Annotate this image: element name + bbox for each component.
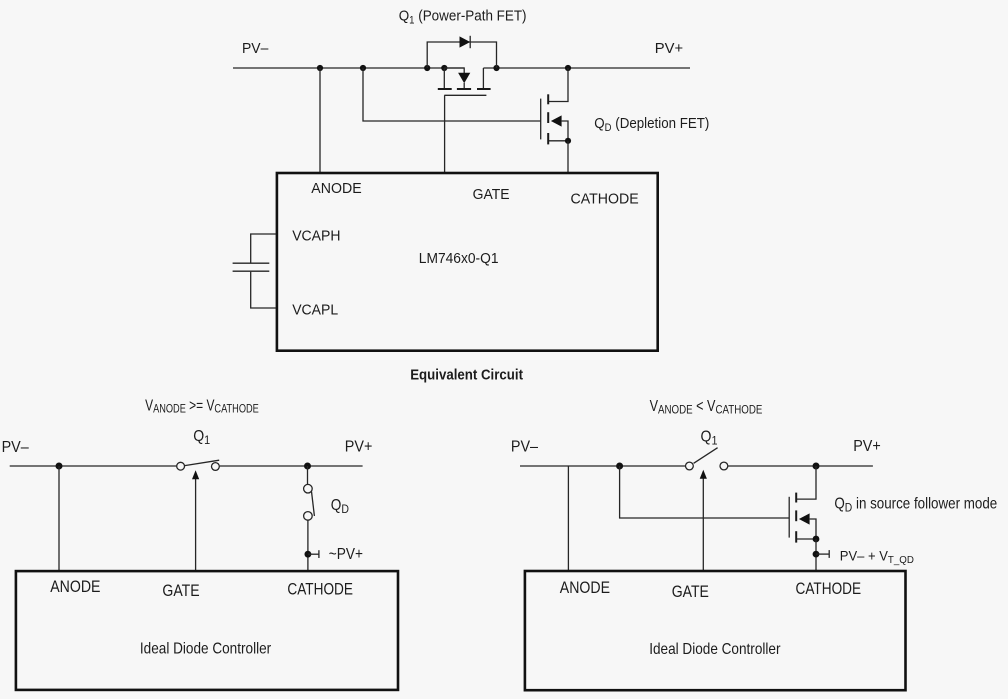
label PV+ bottom right bbox=[853, 439, 881, 455]
wire Q1 gate lead bbox=[444, 95, 446, 173]
pin label GATE bbox=[162, 582, 199, 600]
svg-text:GATE: GATE bbox=[473, 187, 510, 204]
svg-text:~PV+: ~PV+ bbox=[329, 546, 363, 563]
svg-text:GATE: GATE bbox=[162, 582, 199, 600]
IC ideal diode controller box left bbox=[16, 571, 398, 690]
svg-text:LM746x0-Q1: LM746x0-Q1 bbox=[419, 251, 499, 268]
pin label GATE bbox=[473, 187, 510, 204]
svg-text:VCAPH: VCAPH bbox=[292, 228, 340, 245]
node anode tap bbox=[317, 65, 323, 71]
caption Equivalent Circuit bbox=[410, 367, 523, 384]
wire PV rail right segment bbox=[728, 465, 873, 467]
label QD in source follower mode bbox=[834, 496, 997, 515]
diode D1 body diode of Q1 bbox=[460, 36, 471, 48]
wire gate arrow right bbox=[700, 470, 707, 571]
svg-text:PV–: PV– bbox=[511, 439, 539, 455]
label LM746x0-Q1 bbox=[419, 251, 499, 268]
node anode tap bbox=[56, 463, 63, 470]
label QD switch left bbox=[331, 497, 349, 516]
wire stub with tick bbox=[816, 550, 829, 558]
pin label VCAPL bbox=[292, 302, 338, 319]
switch QD closed bbox=[304, 466, 315, 571]
label PV+ top right bbox=[655, 41, 683, 57]
label ~PV+ bbox=[329, 546, 363, 563]
capacitor C1 vcap bbox=[233, 234, 276, 308]
transistor QD depletion FET bbox=[541, 68, 571, 144]
switch Q1 open bbox=[686, 448, 728, 470]
svg-text:Ideal Diode Controller: Ideal Diode Controller bbox=[649, 641, 780, 658]
svg-text:QD (Depletion FET): QD (Depletion FET) bbox=[594, 116, 709, 135]
svg-text:Q1 (Power-Path FET): Q1 (Power-Path FET) bbox=[399, 8, 527, 27]
svg-text:CATHODE: CATHODE bbox=[796, 580, 862, 598]
svg-text:ANODE: ANODE bbox=[311, 180, 362, 196]
pin label CATHODE bbox=[287, 580, 353, 598]
transistor Q1 power-path FET bbox=[438, 68, 491, 95]
node QD gate tap bbox=[360, 65, 366, 71]
svg-text:ANODE: ANODE bbox=[560, 579, 610, 597]
wire PV rail left segment bbox=[520, 465, 686, 467]
svg-text:Equivalent Circuit: Equivalent Circuit bbox=[410, 367, 523, 384]
label QD (Depletion FET) bbox=[594, 116, 709, 135]
svg-text:QD in source follower mode: QD in source follower mode bbox=[834, 496, 997, 515]
pin label ANODE bbox=[560, 579, 610, 597]
wire PV rail right segment bbox=[220, 465, 363, 467]
IC U1 LM746x0-Q1 controller box bbox=[277, 173, 658, 351]
wire anode vertical bbox=[58, 466, 60, 571]
wire cathode vertical bbox=[815, 539, 817, 571]
node QD gate tap bbox=[616, 463, 623, 470]
wire gate arrow left bbox=[192, 470, 199, 571]
node ~PV+ junction bbox=[305, 551, 312, 558]
label Ideal Diode Controller right bbox=[649, 641, 780, 658]
pin label CATHODE bbox=[571, 191, 639, 207]
label PV- bottom right bbox=[511, 439, 539, 455]
node QD drain tap bbox=[813, 463, 820, 470]
transistor QD source follower bbox=[789, 466, 819, 543]
node Q1 drain bbox=[441, 65, 447, 71]
svg-text:Ideal Diode Controller: Ideal Diode Controller bbox=[140, 641, 271, 658]
node cathode tap bbox=[304, 463, 311, 470]
label condition V_ANODE >= V_CATHODE bbox=[145, 397, 259, 416]
pin label ANODE bbox=[50, 578, 100, 596]
wire ~PV+ stub with tick bbox=[308, 550, 319, 558]
node cathode tap bbox=[565, 65, 571, 71]
node PV-+VT_QD junction bbox=[813, 551, 820, 558]
wire QD gate feed bbox=[363, 68, 541, 121]
label condition V_ANODE < V_CATHODE bbox=[650, 397, 763, 417]
svg-text:PV+: PV+ bbox=[345, 439, 373, 455]
pin label ANODE bbox=[311, 180, 362, 196]
pin label CATHODE bbox=[796, 580, 862, 598]
label PV- bottom left bbox=[2, 440, 30, 456]
svg-text:VCAPL: VCAPL bbox=[292, 302, 338, 319]
svg-text:GATE: GATE bbox=[672, 583, 709, 601]
pin label GATE bbox=[672, 583, 709, 601]
label PV- top left bbox=[242, 41, 269, 58]
IC ideal diode controller box right bbox=[525, 571, 906, 690]
wire body diode loop bbox=[427, 42, 496, 68]
wire QD gate feed bbox=[620, 466, 790, 518]
label Ideal Diode Controller left bbox=[140, 641, 271, 658]
pin label VCAPH bbox=[292, 228, 340, 245]
label PV- + V_T_QD bbox=[840, 548, 914, 566]
node Q1 source bbox=[493, 65, 499, 71]
svg-text:ANODE: ANODE bbox=[50, 578, 100, 596]
wire anode vertical bbox=[567, 466, 569, 571]
svg-text:PV+: PV+ bbox=[655, 41, 683, 57]
node diode loop left bbox=[424, 65, 430, 71]
svg-text:PV–: PV– bbox=[2, 440, 30, 456]
wire PV rail right segment bbox=[483, 67, 690, 69]
label Q1 switch right bbox=[701, 429, 718, 448]
wire cathode vertical bbox=[567, 141, 569, 173]
label PV+ bottom left bbox=[345, 439, 373, 455]
svg-text:CATHODE: CATHODE bbox=[571, 191, 639, 207]
wire PV rail left segment bbox=[10, 465, 177, 467]
switch Q1 closed bbox=[177, 460, 220, 470]
label Q1 (Power-Path FET) bbox=[399, 8, 527, 27]
svg-text:PV–: PV– bbox=[242, 41, 269, 58]
svg-text:CATHODE: CATHODE bbox=[287, 580, 353, 598]
svg-text:PV+: PV+ bbox=[853, 439, 881, 455]
label Q1 switch left bbox=[193, 429, 210, 448]
wire PV rail left segment bbox=[233, 67, 464, 69]
wire anode vertical bbox=[319, 68, 321, 173]
